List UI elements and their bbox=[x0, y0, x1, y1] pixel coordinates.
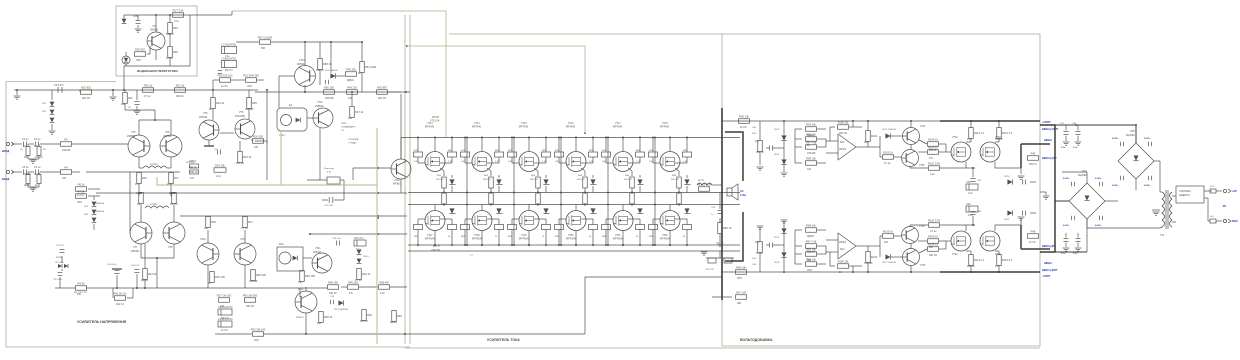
svg-text:360: 360 bbox=[261, 47, 266, 50]
svg-text:5W 0.33: 5W 0.33 bbox=[624, 179, 632, 181]
svg-text:ШИНА(+)ПИТ: ШИНА(+)ПИТ bbox=[1042, 128, 1059, 131]
svg-text:6.3V: 6.3V bbox=[752, 258, 757, 260]
svg-text:VD3: VD3 bbox=[254, 339, 259, 342]
svg-text:47u: 47u bbox=[135, 183, 140, 186]
svg-text:0.1u: 0.1u bbox=[174, 20, 179, 23]
svg-text:0.1u: 0.1u bbox=[1073, 253, 1078, 255]
svg-text:VT50: VT50 bbox=[568, 235, 574, 237]
svg-text:1k 1%: 1k 1% bbox=[1029, 241, 1037, 244]
svg-text:IRF610: IRF610 bbox=[393, 183, 402, 186]
svg-text:R46: R46 bbox=[1031, 230, 1036, 234]
svg-text:5W 0.33: 5W 0.33 bbox=[436, 179, 444, 181]
svg-text:47u: 47u bbox=[190, 177, 195, 180]
svg-text:R31 2HH 360: R31 2HH 360 bbox=[243, 74, 259, 78]
svg-text:C1 1u: C1 1u bbox=[22, 138, 29, 141]
svg-text:VT47-58: VT47-58 bbox=[431, 250, 441, 252]
svg-text:VT9: VT9 bbox=[203, 112, 208, 115]
svg-text:0.047u: 0.047u bbox=[1095, 177, 1102, 180]
svg-text:R62: R62 bbox=[367, 313, 372, 317]
svg-text:ОТСЕЧКА: ОТСЕЧКА bbox=[348, 138, 359, 141]
svg-text:47u: 47u bbox=[929, 157, 934, 160]
svg-text:1N4148: 1N4148 bbox=[249, 280, 258, 283]
svg-text:0.047u: 0.047u bbox=[1063, 224, 1070, 227]
svg-text:СВЕТ: СВЕТ bbox=[341, 123, 347, 125]
svg-text:C2 1u: C2 1u bbox=[34, 138, 41, 141]
svg-text:R111 0.1: R111 0.1 bbox=[974, 258, 985, 262]
svg-text:R49 1k: R49 1k bbox=[362, 272, 371, 276]
svg-text:R59: R59 bbox=[397, 314, 402, 318]
svg-text:R44 2k: R44 2k bbox=[929, 149, 937, 152]
svg-text:IRFP240: IRFP240 bbox=[519, 127, 529, 129]
svg-text:КД521А: КД521А bbox=[96, 202, 104, 205]
svg-text:C14 2.2n: C14 2.2n bbox=[131, 265, 140, 267]
svg-text:0.1u: 0.1u bbox=[1061, 147, 1066, 149]
svg-text:5W 0.33: 5W 0.33 bbox=[483, 179, 491, 181]
svg-text:R67 100: R67 100 bbox=[736, 291, 746, 295]
svg-text:КД521: КД521 bbox=[807, 235, 815, 238]
svg-text:VT49: VT49 bbox=[521, 235, 527, 237]
svg-text:VT8: VT8 bbox=[168, 246, 173, 249]
svg-text:VD14: VD14 bbox=[363, 256, 369, 258]
svg-text:ШИНА: ШИНА bbox=[1044, 139, 1052, 142]
svg-text:VT13: VT13 bbox=[427, 123, 433, 125]
svg-text:R110 0.39: R110 0.39 bbox=[928, 162, 940, 166]
svg-text:R44 2k: R44 2k bbox=[176, 95, 184, 98]
svg-text:VT52: VT52 bbox=[662, 235, 668, 237]
svg-text:АС: АС bbox=[740, 189, 744, 193]
svg-text:300 1%: 300 1% bbox=[839, 132, 848, 135]
svg-text:R44 2k: R44 2k bbox=[967, 265, 975, 268]
svg-text:1 РЯДА: 1 РЯДА bbox=[348, 142, 356, 145]
svg-text:R65 10 0.25: R65 10 0.25 bbox=[697, 183, 712, 187]
svg-text:R36 902: R36 902 bbox=[135, 48, 145, 52]
svg-text:ВХОД: ВХОД bbox=[2, 177, 9, 181]
svg-text:VD3: VD3 bbox=[77, 201, 82, 204]
svg-text:2.2n: 2.2n bbox=[167, 183, 172, 186]
svg-text:VD6 1N4148: VD6 1N4148 bbox=[325, 70, 338, 72]
svg-text:VT16: VT16 bbox=[568, 123, 574, 125]
svg-text:R50 150: R50 150 bbox=[324, 86, 334, 90]
svg-text:IRFP240: IRFP240 bbox=[613, 127, 623, 129]
svg-text:VD17 1N4148: VD17 1N4148 bbox=[882, 129, 897, 131]
svg-text:2.2n: 2.2n bbox=[930, 173, 935, 176]
svg-text:R12 10: R12 10 bbox=[756, 151, 764, 154]
svg-text:VD10: VD10 bbox=[774, 129, 780, 131]
svg-text:КЦ405А: КЦ405А bbox=[1126, 134, 1135, 137]
svg-text:КД521: КД521 bbox=[141, 279, 149, 282]
svg-text:R24 1k: R24 1k bbox=[243, 155, 252, 159]
svg-text:R44 2k: R44 2k bbox=[148, 272, 157, 276]
svg-text:R47 1k: R47 1k bbox=[355, 110, 364, 114]
svg-text:КД521: КД521 bbox=[390, 321, 398, 324]
svg-text:2N5401: 2N5401 bbox=[199, 116, 208, 119]
svg-text:ВОЛЬТОДОБАВКА: ВОЛЬТОДОБАВКА bbox=[740, 338, 773, 342]
svg-text:DA2: DA2 bbox=[840, 141, 845, 144]
svg-text:C4 1u: C4 1u bbox=[34, 166, 41, 169]
svg-text:C22 0.68: C22 0.68 bbox=[324, 205, 334, 207]
svg-text:47u: 47u bbox=[995, 265, 1000, 268]
svg-text:47u: 47u bbox=[34, 145, 39, 148]
svg-text:VT28: VT28 bbox=[919, 165, 925, 167]
svg-text:R53 887: R53 887 bbox=[377, 86, 387, 90]
svg-text:300 1%: 300 1% bbox=[236, 162, 245, 165]
svg-text:ВЫХ: ВЫХ bbox=[1232, 220, 1238, 223]
svg-text:R11: R11 bbox=[128, 96, 133, 100]
svg-text:360: 360 bbox=[317, 322, 322, 325]
svg-text:C17 47u: C17 47u bbox=[56, 245, 65, 247]
svg-text:R57 (2x)180: R57 (2x)180 bbox=[258, 36, 273, 40]
svg-text:R12 1k: R12 1k bbox=[176, 84, 185, 88]
svg-text:300 1%: 300 1% bbox=[929, 254, 938, 257]
svg-text:VD3: VD3 bbox=[247, 85, 252, 88]
svg-text:EA: EA bbox=[289, 104, 293, 107]
svg-text:R9 56: R9 56 bbox=[78, 282, 85, 286]
svg-text:R105 1k: R105 1k bbox=[883, 230, 893, 234]
svg-text:IRFP240: IRFP240 bbox=[566, 127, 576, 129]
svg-text:1N4148: 1N4148 bbox=[864, 262, 873, 265]
svg-text:C16 2.2n: C16 2.2n bbox=[332, 238, 342, 240]
svg-text:1N4148: 1N4148 bbox=[325, 97, 334, 100]
svg-text:5W 0.33: 5W 0.33 bbox=[577, 179, 585, 181]
svg-text:СИСТЕМА: СИСТЕМА bbox=[1179, 190, 1191, 193]
svg-text:-0В: -0В bbox=[1222, 205, 1226, 208]
svg-text:R51 220k: R51 220k bbox=[365, 65, 377, 69]
svg-text:0.1u: 0.1u bbox=[1073, 147, 1078, 149]
svg-text:ШИНА: ШИНА bbox=[1044, 262, 1052, 265]
svg-text:УСИЛИТЕЛЬ НАПРЯЖЕНИЯ: УСИЛИТЕЛЬ НАПРЯЖЕНИЯ bbox=[77, 320, 127, 324]
svg-text:2N5401: 2N5401 bbox=[313, 251, 322, 254]
svg-text:R12 10: R12 10 bbox=[116, 303, 124, 306]
svg-text:360: 360 bbox=[77, 293, 82, 296]
svg-text:VT47: VT47 bbox=[427, 235, 433, 237]
svg-text:КД521А: КД521А bbox=[96, 210, 104, 213]
svg-text:VT15: VT15 bbox=[521, 123, 527, 125]
svg-text:R24 10k: R24 10k bbox=[215, 164, 225, 168]
svg-text:1N4148: 1N4148 bbox=[807, 152, 816, 155]
svg-text:2N5551: 2N5551 bbox=[127, 135, 136, 138]
svg-text:R34: R34 bbox=[173, 26, 178, 30]
svg-text:R65 2W 360: R65 2W 360 bbox=[243, 294, 258, 298]
svg-text:IRFP240: IRFP240 bbox=[660, 127, 670, 129]
svg-text:VT11: VT11 bbox=[315, 247, 321, 250]
svg-text:R111 0.1: R111 0.1 bbox=[974, 131, 985, 135]
svg-text:360: 360 bbox=[807, 259, 812, 262]
svg-text:R23 2k: R23 2k bbox=[216, 101, 225, 105]
svg-text:КД521: КД521 bbox=[807, 134, 815, 137]
svg-text:VD21: VD21 bbox=[1004, 219, 1010, 221]
svg-text:1N4148: 1N4148 bbox=[62, 149, 71, 152]
svg-text:2N5401: 2N5401 bbox=[131, 250, 140, 253]
svg-text:R41 56 1%: R41 56 1% bbox=[114, 292, 128, 296]
svg-text:VT17: VT17 bbox=[615, 123, 621, 125]
svg-text:6.3V: 6.3V bbox=[752, 133, 757, 135]
svg-text:R100 1M: R100 1M bbox=[838, 260, 849, 264]
svg-text:5W 0.33: 5W 0.33 bbox=[530, 179, 538, 181]
svg-text:УСИЛИТЕЛЬ ТОКА: УСИЛИТЕЛЬ ТОКА bbox=[487, 338, 520, 342]
svg-text:0.047u: 0.047u bbox=[1112, 184, 1119, 187]
svg-text:R100 1M: R100 1M bbox=[838, 121, 849, 125]
svg-text:LM301: LM301 bbox=[839, 149, 847, 151]
svg-text:C10 0.47u: C10 0.47u bbox=[107, 264, 117, 266]
svg-text:R12 10: R12 10 bbox=[807, 251, 815, 254]
svg-text:IRFP9240: IRFP9240 bbox=[613, 239, 624, 241]
svg-text:300 1%: 300 1% bbox=[378, 97, 387, 100]
svg-text:2SB649: 2SB649 bbox=[315, 105, 324, 108]
svg-text:R10 902: R10 902 bbox=[81, 86, 91, 90]
svg-text:VT18: VT18 bbox=[662, 123, 668, 125]
svg-text:VD3: VD3 bbox=[737, 277, 742, 280]
svg-text:C15 47u: C15 47u bbox=[354, 237, 364, 240]
svg-text:VT51: VT51 bbox=[615, 235, 621, 237]
svg-text:ИСТ.Н: ИСТ.Н bbox=[433, 246, 440, 248]
svg-text:IRFP9240: IRFP9240 bbox=[472, 239, 483, 241]
svg-text:DA2: DA2 bbox=[840, 248, 845, 251]
svg-text:VT34: VT34 bbox=[952, 254, 958, 256]
svg-text:R4: R4 bbox=[64, 166, 68, 170]
svg-text:5W 0.3: 5W 0.3 bbox=[221, 317, 229, 320]
svg-text:DA1: DA1 bbox=[279, 243, 284, 246]
svg-text:R26 300: R26 300 bbox=[253, 135, 263, 139]
svg-text:ШИНА(-)ПР: ШИНА(-)ПР bbox=[1042, 245, 1056, 248]
svg-text:IRFP9240: IRFP9240 bbox=[660, 239, 671, 241]
svg-text:R97 4.3k: R97 4.3k bbox=[806, 240, 817, 244]
svg-text:5W 0.3: 5W 0.3 bbox=[166, 33, 174, 36]
svg-text:1k 1%: 1k 1% bbox=[221, 85, 229, 88]
svg-text:0.047u: 0.047u bbox=[1095, 224, 1102, 227]
svg-text:IRFP240: IRFP240 bbox=[425, 127, 435, 129]
svg-text:2.2n: 2.2n bbox=[216, 175, 221, 178]
svg-text:R12 10: R12 10 bbox=[23, 173, 31, 176]
svg-text:C19 0.47u: C19 0.47u bbox=[53, 279, 62, 281]
svg-text:1k 1%: 1k 1% bbox=[77, 194, 85, 197]
svg-text:VT13-24: VT13-24 bbox=[430, 120, 440, 123]
svg-text:0.047u: 0.047u bbox=[1063, 177, 1070, 180]
svg-text:VT27: VT27 bbox=[920, 126, 926, 128]
svg-text:R46 220: R46 220 bbox=[347, 86, 357, 90]
svg-text:-UПИТ: -UПИТ bbox=[1042, 274, 1050, 278]
svg-text:R102: R102 bbox=[871, 134, 878, 138]
svg-text:C25 C26: C25 C26 bbox=[705, 269, 714, 271]
svg-text:Rэкв нагр: Rэкв нагр bbox=[324, 168, 335, 170]
svg-text:C7 1u: C7 1u bbox=[930, 230, 937, 233]
svg-text:VD5: VD5 bbox=[1130, 130, 1135, 133]
svg-text:4 Вт: 4 Вт bbox=[327, 172, 331, 174]
svg-text:5W 0.33: 5W 0.33 bbox=[671, 179, 679, 181]
svg-text:0.047u: 0.047u bbox=[1144, 137, 1151, 140]
svg-text:RC7 3.3k: RC7 3.3k bbox=[173, 9, 185, 13]
svg-text:IRFP9240: IRFP9240 bbox=[519, 239, 530, 241]
svg-text:300 1%: 300 1% bbox=[82, 97, 91, 100]
svg-text:VD10: VD10 bbox=[774, 262, 780, 264]
svg-text:100: 100 bbox=[807, 168, 812, 171]
svg-text:R27: R27 bbox=[248, 220, 253, 224]
svg-text:R98 10k: R98 10k bbox=[806, 224, 816, 228]
svg-text:PC817: PC817 bbox=[279, 135, 286, 137]
svg-text:VT14: VT14 bbox=[474, 123, 480, 125]
svg-text:1k 1%: 1k 1% bbox=[221, 329, 229, 332]
svg-text:R102: R102 bbox=[871, 255, 878, 259]
svg-text:1k 1%: 1k 1% bbox=[166, 57, 174, 60]
svg-text:КД521: КД521 bbox=[24, 184, 32, 187]
svg-text:0.1u: 0.1u bbox=[1061, 253, 1066, 255]
svg-text:100: 100 bbox=[62, 177, 67, 180]
svg-text:VD17 1N4148: VD17 1N4148 bbox=[882, 262, 897, 264]
svg-text:VT11: VT11 bbox=[317, 101, 323, 104]
svg-text:C7 1u: C7 1u bbox=[34, 173, 41, 176]
svg-text:0.1u: 0.1u bbox=[967, 138, 972, 141]
svg-text:100: 100 bbox=[884, 241, 889, 244]
svg-text:ИНДИКАЦИЯ ПЕРЕГРУЗКИ: ИНДИКАЦИЯ ПЕРЕГРУЗКИ bbox=[137, 69, 179, 73]
svg-text:47u: 47u bbox=[349, 292, 354, 295]
svg-text:R28 300: R28 300 bbox=[256, 273, 266, 277]
svg-text:СОВМЕЩЕНО: СОВМЕЩЕНО bbox=[341, 127, 356, 129]
svg-text:LM301: LM301 bbox=[839, 242, 847, 244]
svg-text:R58 4W: R58 4W bbox=[379, 281, 389, 285]
svg-text:0.1u: 0.1u bbox=[356, 248, 361, 251]
svg-text:VD7 VD8: VD7 VD8 bbox=[55, 262, 64, 264]
svg-text:2SA1380: 2SA1380 bbox=[235, 115, 246, 118]
svg-text:TV1: TV1 bbox=[1160, 234, 1165, 237]
svg-text:VT48: VT48 bbox=[474, 235, 480, 237]
svg-text:VD15 КД521А: VD15 КД521А bbox=[334, 308, 348, 311]
svg-text:VT11: VT11 bbox=[298, 288, 304, 291]
svg-text:ШИНА(-)ПИТ: ШИНА(-)ПИТ bbox=[1042, 269, 1058, 272]
svg-text:VD3: VD3 bbox=[807, 269, 812, 272]
svg-text:IRFP9240: IRFP9240 bbox=[425, 239, 436, 241]
svg-text:0.1u: 0.1u bbox=[968, 214, 973, 217]
svg-text:5W 0.3: 5W 0.3 bbox=[170, 203, 178, 206]
svg-text:VT7: VT7 bbox=[133, 246, 138, 249]
svg-text:КД521: КД521 bbox=[189, 160, 197, 163]
svg-text:5W 0.3: 5W 0.3 bbox=[225, 69, 233, 72]
svg-text:R66 10: R66 10 bbox=[723, 226, 732, 230]
svg-text:1N4148: 1N4148 bbox=[245, 108, 254, 111]
svg-text:СО: СО bbox=[341, 130, 345, 132]
svg-text:ЗАЩИТЫ: ЗАЩИТЫ bbox=[1179, 194, 1190, 197]
svg-text:КД521: КД521 bbox=[347, 79, 355, 82]
svg-text:R112 0.1: R112 0.1 bbox=[1002, 258, 1013, 262]
svg-text:0.1u: 0.1u bbox=[137, 203, 142, 206]
svg-text:КЦ405А: КЦ405А bbox=[1078, 174, 1087, 177]
svg-text:C7 1u: C7 1u bbox=[144, 95, 151, 98]
svg-text:1k 1%: 1k 1% bbox=[740, 126, 748, 129]
svg-text:300 1%: 300 1% bbox=[246, 305, 255, 308]
svg-text:4 Ом: 4 Ом bbox=[740, 193, 746, 197]
svg-text:R46 150: R46 150 bbox=[328, 281, 338, 285]
svg-text:1k 1%: 1k 1% bbox=[756, 252, 764, 255]
svg-text:R7 2k: R7 2k bbox=[78, 190, 85, 194]
svg-text:R45: R45 bbox=[1031, 152, 1036, 156]
svg-text:100: 100 bbox=[254, 146, 259, 149]
svg-text:VT10: VT10 bbox=[299, 59, 305, 62]
svg-text:R27 1W 100: R27 1W 100 bbox=[217, 294, 232, 298]
svg-text:5W 0.3: 5W 0.3 bbox=[1029, 163, 1037, 166]
svg-text:2N5401: 2N5401 bbox=[150, 29, 159, 32]
svg-text:C5 0.47u: C5 0.47u bbox=[54, 84, 64, 87]
svg-text:100: 100 bbox=[755, 241, 760, 244]
svg-text:R29 1k: R29 1k bbox=[144, 84, 153, 88]
svg-text:R44 2k: R44 2k bbox=[189, 166, 197, 169]
svg-text:L2 10u: L2 10u bbox=[150, 203, 158, 206]
svg-text:2.2n: 2.2n bbox=[968, 192, 973, 195]
svg-text:VT5: VT5 bbox=[239, 111, 244, 114]
svg-text:+UПИТ: +UПИТ bbox=[1042, 120, 1051, 124]
svg-text:R28: R28 bbox=[211, 220, 216, 224]
svg-text:2.2n: 2.2n bbox=[380, 292, 385, 295]
svg-text:VT6: VT6 bbox=[165, 131, 170, 134]
svg-text:+0В: +0В bbox=[1232, 190, 1237, 193]
svg-text:5W 0.3: 5W 0.3 bbox=[995, 138, 1003, 141]
svg-text:R40 10k: R40 10k bbox=[739, 115, 749, 119]
svg-text:0.047u: 0.047u bbox=[1144, 184, 1151, 187]
svg-text:R30 155 100: R30 155 100 bbox=[218, 74, 233, 78]
svg-text:2N5551: 2N5551 bbox=[296, 317, 304, 319]
svg-text:R44 2k: R44 2k bbox=[329, 292, 337, 295]
svg-text:VD4: VD4 bbox=[1082, 170, 1087, 173]
svg-text:R44 2k: R44 2k bbox=[190, 171, 198, 174]
svg-text:C7 1u: C7 1u bbox=[355, 279, 362, 282]
svg-text:360: 360 bbox=[24, 156, 29, 159]
svg-text:VD9: VD9 bbox=[133, 15, 138, 18]
svg-text:100: 100 bbox=[348, 97, 353, 100]
svg-text:VT34: VT34 bbox=[952, 137, 958, 139]
svg-text:R112 0.1: R112 0.1 bbox=[1002, 131, 1013, 135]
svg-text:R68 1k: R68 1k bbox=[323, 62, 332, 66]
svg-text:R12 10: R12 10 bbox=[35, 156, 43, 159]
svg-text:R25: R25 bbox=[252, 101, 257, 105]
svg-text:C3 1u: C3 1u bbox=[22, 166, 29, 169]
svg-text:47u: 47u bbox=[755, 140, 760, 143]
svg-text:VD20: VD20 bbox=[1004, 176, 1010, 178]
svg-text:R50 150: R50 150 bbox=[305, 274, 315, 278]
svg-text:VD11: VD11 bbox=[774, 154, 780, 156]
svg-text:0.1u: 0.1u bbox=[225, 55, 230, 58]
svg-text:VT10: VT10 bbox=[200, 238, 206, 241]
svg-text:VD11: VD11 bbox=[774, 237, 780, 239]
svg-text:R17: R17 bbox=[174, 176, 179, 180]
svg-text:VT28: VT28 bbox=[919, 226, 925, 228]
svg-text:VD3: VD3 bbox=[136, 59, 141, 62]
svg-text:R108 10: R108 10 bbox=[928, 138, 938, 142]
svg-text:C30: C30 bbox=[966, 181, 971, 184]
svg-text:R30 2W 100: R30 2W 100 bbox=[251, 328, 266, 332]
svg-text:C7 1u: C7 1u bbox=[241, 227, 248, 230]
svg-text:C17(2x)4700: C17(2x)4700 bbox=[222, 44, 237, 47]
svg-text:VT27: VT27 bbox=[920, 265, 926, 267]
svg-text:2N5551: 2N5551 bbox=[163, 135, 172, 138]
svg-text:ВХОД: ВХОД bbox=[2, 149, 9, 153]
svg-text:R12 10: R12 10 bbox=[316, 69, 324, 72]
svg-text:R3: R3 bbox=[64, 138, 68, 142]
svg-text:R19: R19 bbox=[142, 176, 147, 180]
svg-text:1k 1%: 1k 1% bbox=[169, 192, 177, 195]
svg-text:VT5: VT5 bbox=[131, 131, 136, 134]
svg-text:R68 10k: R68 10k bbox=[736, 266, 746, 270]
svg-text:R98 10k: R98 10k bbox=[806, 157, 816, 161]
svg-text:R93 10k: R93 10k bbox=[806, 123, 816, 127]
svg-text:R12 10: R12 10 bbox=[360, 320, 368, 323]
svg-text:360: 360 bbox=[737, 302, 742, 305]
svg-text:IRFP9240: IRFP9240 bbox=[566, 239, 577, 241]
svg-text:R109 10: R109 10 bbox=[928, 235, 938, 239]
svg-text:R48 1k: R48 1k bbox=[324, 315, 333, 319]
svg-text:R45 22k: R45 22k bbox=[346, 68, 356, 72]
svg-text:IRFP240: IRFP240 bbox=[472, 127, 482, 129]
svg-text:R110 0.39: R110 0.39 bbox=[928, 219, 940, 223]
svg-text:L2 7u: L2 7u bbox=[698, 179, 705, 182]
svg-text:0.047u: 0.047u bbox=[1112, 137, 1119, 140]
svg-text:100: 100 bbox=[220, 305, 225, 308]
